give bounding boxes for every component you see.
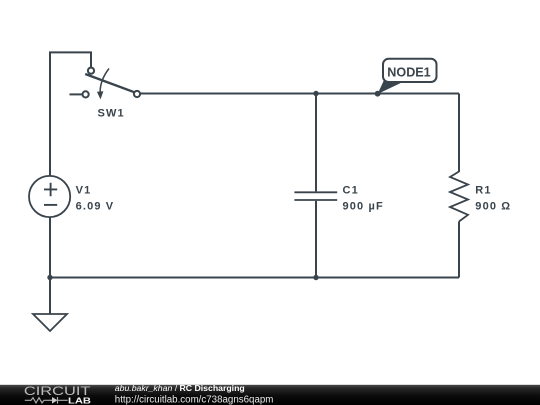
svg-text:900 µF: 900 µF [343, 200, 384, 212]
wire top rail [140, 93, 459, 95]
svg-text:SW1: SW1 [98, 108, 125, 120]
svg-text:http://circuitlab.com/c738agns: http://circuitlab.com/c738agns6qapm [115, 394, 274, 405]
CircuitLab logo [24, 384, 91, 405]
node NODE1 [375, 59, 437, 97]
capacitor C1 [294, 184, 383, 212]
footer bar [0, 385, 540, 405]
wire bottom rail [50, 277, 459, 279]
switch SW1 [70, 68, 141, 120]
wire stub [70, 93, 83, 95]
voltage source V1 [29, 176, 114, 217]
wire right rail upper [458, 94, 460, 173]
svg-text:R1: R1 [475, 184, 491, 196]
resistor R1 [450, 172, 511, 222]
svg-text:C1: C1 [343, 184, 359, 196]
svg-text:NODE1: NODE1 [387, 65, 430, 79]
svg-text:LAB: LAB [68, 396, 91, 405]
ground [33, 278, 67, 332]
switch blade [85, 74, 134, 92]
svg-text:V1: V1 [76, 184, 92, 196]
terminal circles [88, 68, 94, 74]
wire top-left loop [50, 52, 91, 176]
svg-text:6.09 V: 6.09 V [76, 200, 115, 212]
wire capacitor bottom [315, 201, 317, 278]
node junction ground [47, 275, 52, 280]
wire left rail lower [49, 217, 51, 278]
node junction top [313, 91, 318, 96]
svg-text:900 Ω: 900 Ω [475, 200, 511, 212]
svg-text:abu.bakr_khan / RC Discharging: abu.bakr_khan / RC Discharging [115, 383, 245, 393]
node junction bottom [313, 275, 318, 280]
arrow [100, 69, 109, 93]
wire capacitor top [315, 94, 317, 192]
wire right rail lower [458, 222, 460, 278]
